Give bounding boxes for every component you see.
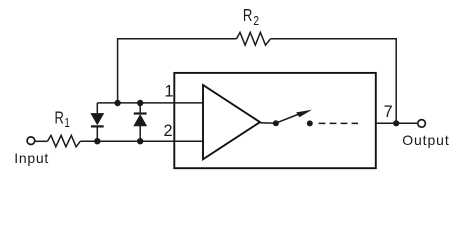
resistor R1 [47,135,80,146]
junction node: feedback to output [393,120,399,126]
svg-text:2: 2 [164,122,173,140]
svg-text:1: 1 [64,117,69,130]
dashed wire from switch contact [319,122,358,124]
wire pin 7 to output terminal [376,122,418,124]
wire pin 2 rail: R1 to comparator inverting input [80,140,203,142]
svg-text:R: R [243,6,252,25]
comparator amplifier triangle [203,85,260,159]
junction node: D2 bottom on pin 2 rail [137,138,143,144]
svg-text:R: R [55,109,64,128]
svg-text:1: 1 [165,83,174,101]
input terminal [27,137,35,145]
switch blade with arrowhead [276,110,312,123]
wire input to R1 [35,140,48,142]
wire feedback right: from R2 across and down to output node [271,39,397,124]
wire comparator output to switch pole [260,122,276,124]
junction node: D1 bottom on pin 2 rail [94,138,100,144]
svg-text:2: 2 [253,13,259,29]
IC package box U1 [174,73,375,168]
diode D2 (right, cathode up) [134,103,147,141]
wire feedback left: from pin 1 node up and across to R2 [118,39,237,103]
svg-text:Input: Input [14,150,49,166]
junction node: D2 top on pin 1 rail [137,100,143,106]
pin 1 label [165,83,174,101]
label Output [402,132,449,148]
pin 2 label [164,122,173,140]
svg-text:Output: Output [402,132,449,148]
output terminal [418,120,426,128]
diode D1 (left, cathode down) [91,103,104,141]
resistor R2 [237,32,271,45]
label R2 [243,6,260,28]
label Input [14,150,49,166]
junction node: feedback to pin 1 rail [114,100,120,106]
svg-text:7: 7 [384,103,393,121]
switch pole node [273,120,279,126]
pin 7 label [384,103,393,121]
label R1 [55,109,70,131]
wire pin 1 rail: diode top rail to comparator non-inverting input [97,102,203,104]
switch contact node [307,120,313,126]
